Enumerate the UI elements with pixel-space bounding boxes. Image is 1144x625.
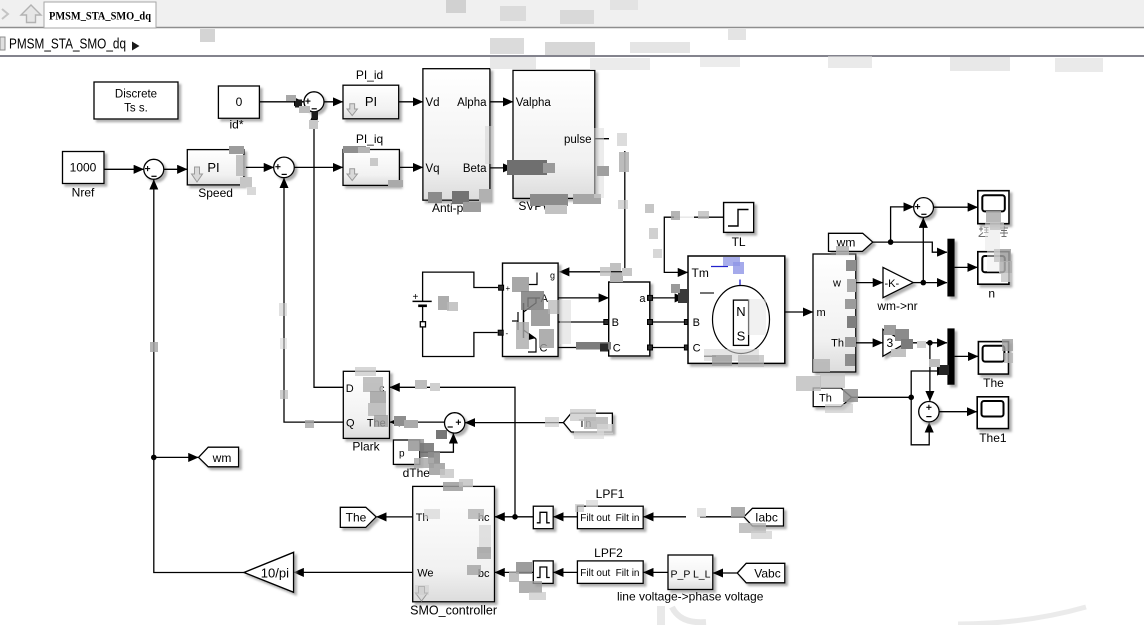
mux for scope The (947, 328, 954, 384)
svg-text:wm->nr: wm->nr (876, 299, 917, 313)
svg-text:Valpha: Valpha (516, 97, 552, 109)
gain wm->nr (883, 267, 913, 297)
wire iq sum to PI_iq (294, 166, 342, 168)
subsystem Plark (park transform, flipped) (343, 371, 389, 438)
wire LPF2 out to rate transition 2 (554, 571, 578, 573)
wire SMO We output to gain 10/pi (294, 571, 413, 573)
svg-text:w: w (832, 278, 841, 290)
constant block id* 0 (218, 86, 259, 118)
rate transition block 1 (533, 506, 553, 529)
svg-text:Tm: Tm (692, 266, 709, 280)
wire gain output to sum and mux (913, 282, 923, 284)
subsystem Speed (PI) (187, 150, 244, 185)
svg-text:LPF1: LPF1 (596, 487, 625, 501)
svg-text:N: N (736, 304, 745, 319)
subsystem Anti-park (423, 69, 490, 201)
gain 3 (883, 329, 907, 356)
inverter block universal bridge (503, 263, 559, 356)
wire TL to machine Tm (664, 217, 723, 272)
wire Speed PI to iq sum (244, 166, 274, 168)
svg-text:1000: 1000 (70, 161, 97, 175)
wire P_P block to LPF2 in (644, 571, 668, 573)
svg-text:Ts s.: Ts s. (124, 103, 148, 115)
wire sum to scope The1 (939, 411, 977, 413)
svg-text:Filt out: Filt out (580, 568, 610, 579)
wire rate transition 1 to SMO hc (515, 516, 533, 518)
wire gain 3 output to mux and sum (906, 342, 930, 344)
wire dThe to sum bottom (420, 434, 454, 453)
wire sum to scope speed difference (934, 206, 978, 208)
From tag Vabc (737, 563, 785, 583)
svg-text:dThe: dThe (403, 466, 431, 480)
svg-text:Discrete: Discrete (115, 89, 157, 101)
svg-text:id*: id* (229, 118, 243, 132)
svg-text:C: C (693, 343, 701, 355)
constant block Nref 1000 (63, 152, 105, 184)
svg-text:Vabc: Vabc (754, 567, 780, 581)
svg-text:+: + (506, 284, 511, 293)
wire inverter B to measurement b (558, 321, 604, 323)
svg-text:L_L: L_L (693, 569, 711, 581)
svg-text:PI_iq: PI_iq (356, 132, 383, 146)
wire measurement b to machine B (653, 321, 685, 323)
svg-text:PI: PI (207, 160, 219, 175)
svg-text:The: The (983, 376, 1004, 390)
wire rate transition 2 to SMO bc (495, 571, 533, 573)
wire battery minus to inverter (423, 307, 498, 357)
PMSM machine block (688, 256, 785, 363)
svg-text:wm: wm (212, 451, 232, 465)
svg-text:Q: Q (346, 418, 355, 430)
wire measurement c to machine C (653, 347, 685, 349)
svg-text:B: B (693, 317, 700, 329)
svg-text:Beta: Beta (463, 163, 487, 175)
scope The1 (977, 397, 1008, 429)
wire pulse to inverter g (560, 139, 625, 272)
wire PI_iq to Anti-park Vq (399, 166, 422, 168)
constant block dThe (393, 440, 419, 464)
wire sum to Plark The input (390, 421, 445, 423)
svg-text:The: The (346, 510, 367, 524)
goto tag From wm (top) (829, 233, 873, 251)
wire Alpha to SVPWM (490, 101, 513, 103)
svg-text:PI_id: PI_id (356, 68, 383, 82)
svg-text:3: 3 (887, 336, 894, 350)
wire From wm to speed error sum and mux (873, 241, 891, 243)
sum block speed difference (914, 198, 934, 218)
svg-text:Filt in: Filt in (616, 513, 640, 524)
svg-text:PI: PI (365, 94, 377, 109)
rate transition block 2 (533, 561, 553, 584)
wire Vabc to P_P block (713, 572, 737, 574)
svg-text:line voltage->phase voltage: line voltage->phase voltage (617, 590, 764, 604)
wire battery plus to inverter (423, 272, 498, 301)
svg-text:g: g (550, 271, 555, 281)
svg-text:Speed: Speed (198, 186, 233, 200)
svg-text:LPF2: LPF2 (594, 546, 623, 560)
demux measurement selector block (813, 254, 856, 372)
wire id* to id sum (259, 101, 303, 103)
step block TL (724, 203, 754, 233)
svg-text:Th: Th (831, 338, 844, 350)
wire demux Th to gain 3 (856, 342, 883, 344)
wire Plark Q output to iq sum feedback (284, 178, 343, 422)
wire Plark D output to id sum feedback (314, 112, 343, 387)
wire id sum to PI_id (324, 101, 343, 103)
wire PI_id to Anti-park Vd (399, 101, 423, 103)
wire machine m to demux (785, 311, 813, 313)
wire measurement a to machine A (653, 297, 685, 299)
goto tag The (340, 507, 376, 527)
wire From Th to mux and sum (852, 396, 912, 398)
three-phase V-I measurement block (609, 282, 650, 356)
wire abc currents into Plark top input (390, 387, 515, 517)
scope speed difference (978, 191, 1009, 224)
svg-text:PMSM_STA_SMO_dq: PMSM_STA_SMO_dq (9, 37, 126, 53)
svg-text:Alpha: Alpha (457, 97, 487, 109)
From tag Iabc (744, 508, 784, 526)
svg-text:10/pi: 10/pi (261, 566, 289, 581)
svg-text:TL: TL (732, 235, 746, 249)
svg-text:S: S (737, 329, 746, 344)
svg-text:Filt out: Filt out (580, 513, 610, 524)
svg-text:Iabc: Iabc (755, 510, 778, 524)
subsystem SMO_controller (413, 486, 495, 601)
toolbar tab strip background (0, 0, 1144, 28)
svg-text:pulse: pulse (564, 134, 592, 146)
sum block The error (919, 402, 939, 422)
svg-text:Th: Th (819, 393, 832, 405)
wire 10/pi output up to speed sum feedback (154, 180, 244, 573)
wire inverter C to measurement c (558, 347, 604, 349)
sum block iq error (274, 157, 295, 178)
svg-text:a: a (639, 293, 646, 305)
active model tab (44, 2, 156, 28)
svg-text:p: p (399, 449, 405, 460)
svg-text:Plark: Plark (352, 440, 380, 454)
wire LPF1 out to rate transition 1 (554, 516, 578, 518)
svg-text:P_P: P_P (671, 569, 691, 581)
mux for scope n (947, 239, 954, 297)
subsystem line voltage to phase voltage (668, 555, 713, 590)
breadcrumb bar (0, 29, 1144, 56)
sum block theta compensation (445, 413, 465, 433)
svg-text:Nref: Nref (72, 186, 95, 200)
svg-text:The1: The1 (979, 431, 1007, 445)
wire branch to goto wm (154, 456, 198, 458)
wire Beta to SVPWM (490, 167, 513, 169)
svg-text:PMSM_STA_SMO_dq: PMSM_STA_SMO_dq (49, 9, 151, 23)
scope The (978, 342, 1008, 375)
svg-text:Filt in: Filt in (616, 568, 640, 579)
From tag Th (lower) (813, 388, 851, 407)
svg-text:-K-: -K- (885, 278, 900, 290)
svg-text:Vq: Vq (426, 163, 440, 175)
svg-text:0: 0 (236, 95, 243, 109)
svg-text:Vd: Vd (426, 97, 440, 109)
svg-text:m: m (817, 307, 826, 319)
sum block speed error (144, 159, 164, 179)
svg-text:We: We (417, 568, 433, 580)
svg-text:-: - (506, 329, 509, 338)
wire From Th to sum right input (465, 422, 563, 424)
sum block id error (304, 92, 324, 112)
gain 10/pi (flipped) (244, 552, 294, 592)
svg-text:D: D (346, 383, 354, 395)
goto tag wm (estimated speed) (199, 447, 239, 467)
wire speed sum to Speed PI (164, 168, 187, 170)
wire SMO Th output to goto The (377, 516, 413, 518)
scope n (978, 252, 1009, 285)
wire Nref to speed sum (104, 168, 144, 170)
wire inverter A to measurement a (558, 297, 608, 299)
subsystem SVPWM (513, 70, 595, 198)
svg-text:C: C (613, 343, 621, 355)
wire Iabc to LPF1 in (644, 516, 744, 518)
svg-text:n: n (988, 287, 995, 301)
svg-text:SMO_controller: SMO_controller (410, 604, 497, 618)
From tag Th (near Plark) (563, 413, 612, 432)
wire demux w to gain wm-nr (856, 282, 883, 284)
annotation Discrete Ts s. (94, 82, 178, 119)
svg-text:B: B (612, 317, 619, 329)
